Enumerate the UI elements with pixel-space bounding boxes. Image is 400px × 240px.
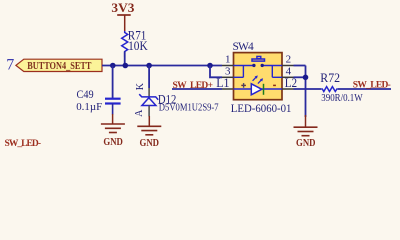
pin 2 <box>282 65 294 67</box>
svg-text:R72: R72 <box>320 71 340 85</box>
pin L2 <box>282 88 294 90</box>
svg-text:390R/0.1W: 390R/0.1W <box>321 93 362 104</box>
capacitor C49 <box>76 87 120 115</box>
svg-text:SW4: SW4 <box>233 41 254 53</box>
node junction dot C49 <box>110 63 116 69</box>
svg-text:7: 7 <box>6 57 14 74</box>
node junction dot pin4 <box>303 75 309 81</box>
svg-text:2: 2 <box>286 53 292 65</box>
wire R72 to SW_LED- <box>338 88 391 90</box>
svg-text:C49: C49 <box>77 87 94 101</box>
svg-text:SW_LED-: SW_LED- <box>353 80 391 90</box>
pin 3 <box>222 76 234 78</box>
wire down to C49 <box>112 66 114 99</box>
wire jog to pin 3 <box>210 66 222 78</box>
node junction dot D12 <box>146 63 152 69</box>
svg-text:3: 3 <box>225 65 231 77</box>
svg-text:GND: GND <box>140 137 160 148</box>
port BUTTON4_SETT <box>6 57 102 74</box>
wire to L1 <box>172 88 222 90</box>
svg-text:GND: GND <box>103 136 123 148</box>
svg-text:D5V0M1U2S9-7: D5V0M1U2S9-7 <box>159 102 219 113</box>
pin 4 <box>282 76 294 78</box>
resistor R71 <box>122 29 148 66</box>
ground GND2 <box>137 116 161 149</box>
wire pin4 to vertical <box>294 76 306 78</box>
node junction dot R71 <box>123 63 129 69</box>
ground GND1 <box>101 114 125 148</box>
diode D12 (TVS) <box>134 82 219 117</box>
LED inside SW4 <box>234 75 283 94</box>
power 3V3 <box>111 0 135 31</box>
svg-text:BUTTON4_SETT: BUTTON4_SETT <box>27 61 91 72</box>
ground GND3 <box>294 115 318 149</box>
resistor R72 <box>320 71 362 104</box>
svg-text:GND: GND <box>296 137 316 148</box>
switch SW4 body <box>233 41 283 100</box>
svg-text:K: K <box>135 82 146 90</box>
wire L2 net to R72 <box>294 88 322 90</box>
svg-text:A: A <box>134 109 145 117</box>
wire down to D12 <box>148 66 150 89</box>
pin 1 <box>222 65 234 67</box>
svg-text:0.1µF: 0.1µF <box>76 101 102 113</box>
wire main horizontal <box>102 65 222 67</box>
wire pin2 to vertical <box>294 65 306 67</box>
switch internal contacts <box>234 56 283 77</box>
svg-text:10K: 10K <box>128 39 148 53</box>
svg-text:SW_LED-: SW_LED- <box>5 139 42 148</box>
svg-text:1: 1 <box>225 53 231 65</box>
svg-text:3V3: 3V3 <box>111 0 135 15</box>
svg-text:LED-6060-01: LED-6060-01 <box>231 101 292 115</box>
wire vertical right <box>305 66 307 118</box>
node junction dot SW4 <box>207 63 213 69</box>
pin L1 <box>222 88 234 90</box>
